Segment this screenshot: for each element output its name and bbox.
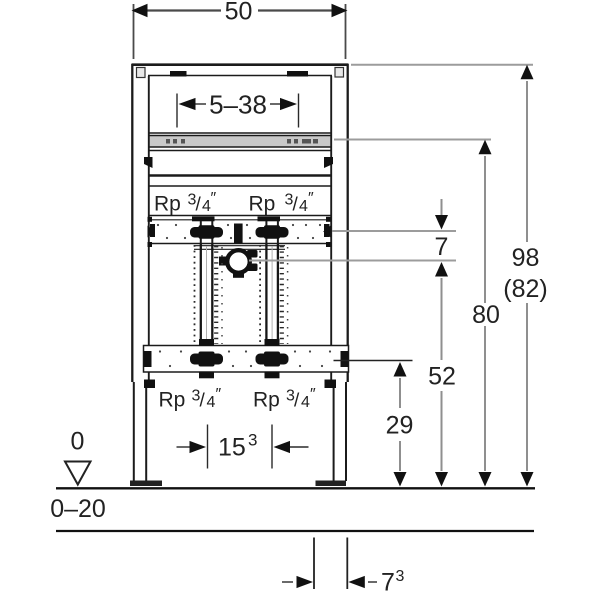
dimension 80 vertical [479, 140, 492, 155]
svg-text:52: 52 [428, 363, 456, 391]
center pipe stub [234, 224, 243, 244]
leader crossbar [334, 139, 491, 141]
supply pipe left [195, 244, 223, 345]
svg-text:/: / [196, 195, 202, 216]
dimension 50 top [134, 4, 346, 59]
svg-text:Rp: Rp [249, 193, 276, 216]
dimension 7 vertical [441, 199, 443, 215]
wall anchor slot left [170, 71, 187, 77]
svg-text:″: ″ [308, 190, 314, 207]
svg-text:50: 50 [225, 0, 253, 26]
svg-text:(82): (82) [503, 275, 547, 303]
dimension 29 vertical [394, 362, 407, 377]
dimension 98 (82) vertical [521, 65, 534, 80]
svg-text:5–38: 5–38 [209, 89, 267, 119]
svg-text:7: 7 [381, 569, 395, 597]
upper connection band [149, 220, 331, 244]
drain stub lines [314, 538, 347, 590]
datum triangle [65, 462, 91, 485]
column step left [144, 380, 155, 389]
leader water connection [332, 230, 456, 232]
clamp bottom tab [233, 273, 244, 278]
svg-text:Rp: Rp [253, 389, 280, 412]
leg right [334, 382, 346, 481]
drain clamp circle [227, 250, 250, 273]
clamp rail lines [194, 245, 285, 247]
finished floor line [56, 487, 535, 489]
top corner bracket right [335, 68, 344, 78]
band end cap right [324, 224, 330, 237]
frame top bar [132, 65, 349, 76]
svg-text:/: / [294, 391, 300, 412]
foot plate right [316, 481, 347, 487]
supply pipe right [260, 244, 288, 345]
label Rp 3/4 lower right [253, 386, 316, 412]
lower band end cap right [341, 351, 349, 367]
band end cap left [150, 224, 155, 237]
lower band end cap left [144, 351, 152, 367]
clamp right bolt [247, 250, 258, 271]
corner clip left [144, 157, 153, 168]
svg-text:4: 4 [299, 198, 308, 215]
svg-text:0: 0 [71, 428, 85, 456]
dimension 5-38 [177, 94, 299, 128]
svg-text:3: 3 [248, 431, 257, 450]
water fitting lower left [190, 339, 223, 378]
band dots [157, 224, 321, 239]
dimension 15-3 [177, 425, 309, 469]
dimension 52 vertical [435, 262, 448, 277]
svg-text:98: 98 [512, 244, 540, 272]
foot plate left [130, 481, 162, 487]
lower band dots [159, 350, 331, 367]
svg-text:7: 7 [435, 233, 449, 261]
svg-text:Rp: Rp [159, 389, 186, 412]
wall anchor slot right [287, 71, 308, 77]
svg-text:4: 4 [207, 394, 216, 411]
frame right upright [331, 64, 348, 382]
crossbar printed marks right [287, 139, 318, 144]
svg-text:80: 80 [472, 301, 500, 329]
leader frame top [351, 64, 533, 66]
svg-text:″: ″ [310, 386, 316, 403]
leg left [134, 382, 146, 481]
svg-text:″: ″ [211, 190, 217, 207]
lower connection band [144, 346, 349, 373]
svg-text:15: 15 [218, 434, 246, 462]
label Rp 3/4 lower left [159, 386, 222, 412]
water fitting upper right [256, 217, 289, 245]
leader lower connection [334, 360, 413, 362]
corner clip right [324, 157, 333, 168]
raw floor line [56, 530, 534, 532]
svg-text:4: 4 [301, 394, 310, 411]
dimension 7-3 bottom [282, 581, 293, 583]
water fitting lower right [256, 339, 289, 378]
column step right [325, 380, 337, 389]
band arrow mark right column [323, 226, 331, 238]
svg-text:/: / [293, 195, 299, 216]
svg-text:Rp: Rp [154, 193, 181, 216]
band arrow mark left column [148, 226, 156, 238]
label Rp 3/4 upper left [154, 190, 217, 216]
water fitting upper left [190, 217, 223, 245]
upper fastening rail [149, 176, 331, 187]
svg-text:0–20: 0–20 [50, 495, 106, 523]
top corner bracket left [137, 68, 146, 78]
clamp left tab [219, 257, 227, 266]
frame left upright [132, 64, 149, 382]
svg-text:″: ″ [216, 386, 222, 403]
crossbar printed marks left [166, 139, 185, 144]
svg-text:/: / [200, 391, 206, 412]
leader drain [249, 260, 456, 262]
label Rp 3/4 upper right [249, 190, 315, 216]
crossbar rail [149, 132, 331, 134]
svg-text:3: 3 [396, 568, 405, 585]
svg-text:29: 29 [386, 412, 414, 440]
